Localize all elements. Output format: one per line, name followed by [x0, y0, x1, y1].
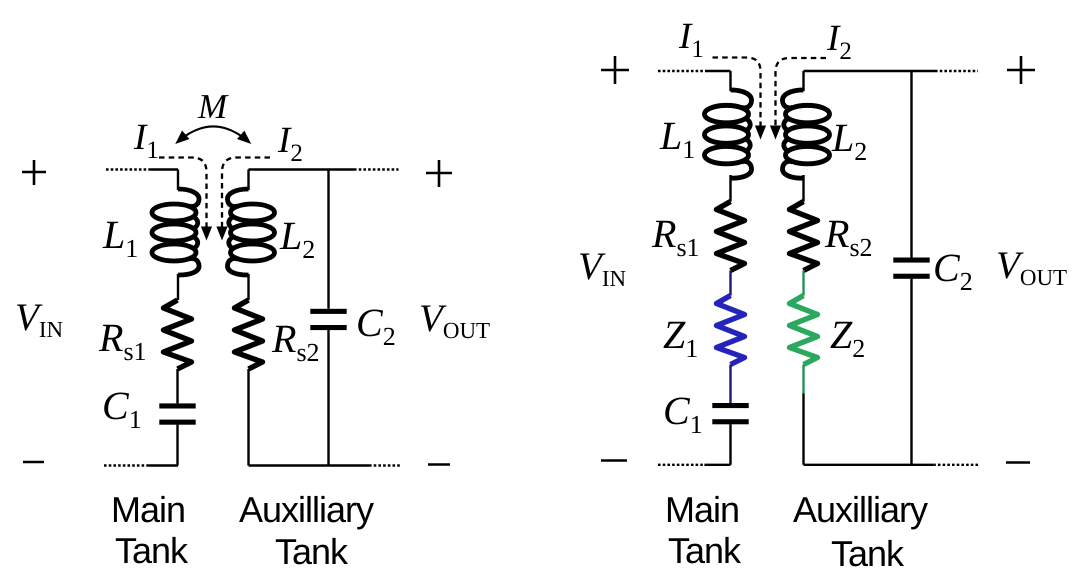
inductor L2: [782, 90, 829, 178]
svg-text:Main: Main: [111, 489, 185, 530]
wire main branch top: [177, 170, 179, 191]
svg-text:Tank: Tank: [668, 530, 742, 571]
wire C1 to bottom rail: [729, 424, 731, 465]
svg-text:I1: I1: [133, 117, 159, 164]
svg-text:VOUT: VOUT: [419, 297, 490, 343]
arrowhead M arc left end: [172, 131, 190, 149]
dashed current path I1: [159, 158, 207, 228]
resistor Rs2: [235, 300, 263, 369]
wire bottom rail dotted right: [369, 464, 400, 466]
wire L1 to Rs1: [177, 274, 179, 300]
wire bottom rail solid left: [704, 464, 730, 466]
impedance Z1: [717, 296, 745, 365]
plus terminal top-left: [601, 56, 629, 84]
svg-text:Auxilliary: Auxilliary: [793, 489, 928, 530]
svg-text:Rs1: Rs1: [651, 211, 700, 262]
wire Rs1 to C1: [176, 369, 178, 403]
dashed current path I2: [776, 58, 827, 126]
capacitor C1: [159, 403, 195, 424]
wire top rail dotted left: [106, 168, 149, 170]
wire Z2 green lead: [802, 365, 804, 394]
minus terminal bottom-left: [601, 459, 627, 462]
wire C2 branch top: [910, 71, 912, 258]
wire top rail solid right: [249, 168, 355, 170]
minus terminal bottom-left: [23, 461, 44, 464]
minus terminal bottom-right: [1006, 461, 1030, 464]
wire top rail dotted right: [354, 168, 399, 170]
wire L1 to Rs1: [729, 175, 731, 202]
wire C2 branch top: [327, 170, 329, 309]
wire Rs1 to Z1: [729, 271, 731, 296]
svg-text:L1: L1: [659, 113, 695, 164]
wire bottom rail dotted right: [933, 464, 979, 466]
svg-text:L2: L2: [831, 115, 867, 166]
resistor Rs1: [164, 300, 192, 369]
resistor Rs2: [790, 202, 818, 271]
arrowhead I2 right: [770, 126, 781, 140]
svg-text:Rs2: Rs2: [824, 211, 873, 262]
arrowhead I1 right: [755, 126, 766, 140]
wire C2 to bottom rail: [327, 330, 329, 466]
wire top rail dotted right: [935, 70, 978, 72]
wire bottom rail dotted left: [658, 464, 704, 466]
svg-text:Z2: Z2: [830, 312, 865, 363]
wire C2 to bottom rail: [910, 279, 912, 465]
mutual coupling arc M: [178, 126, 250, 142]
plus terminal top-right: [1007, 56, 1035, 84]
svg-text:L1: L1: [102, 212, 138, 263]
wire L2 to Rs2: [247, 274, 249, 300]
svg-text:Tank: Tank: [831, 533, 905, 574]
arrowhead I2 left: [216, 227, 227, 241]
wire L2 to Rs2: [802, 175, 804, 202]
arrowhead M arc right end: [237, 131, 255, 149]
wire top rail dotted left: [658, 70, 706, 72]
wire aux branch top: [247, 170, 249, 191]
wire bottom rail dotted left: [104, 464, 149, 466]
resistor Rs1: [717, 202, 745, 271]
svg-text:VIN: VIN: [578, 245, 626, 291]
capacitor C1: [712, 403, 748, 424]
wire Z2 to bottom rail: [802, 394, 804, 465]
minus terminal bottom-right: [428, 463, 450, 466]
svg-text:Tank: Tank: [115, 530, 189, 571]
arrowhead I1 left: [201, 227, 212, 241]
svg-text:L2: L2: [279, 213, 315, 264]
svg-text:I1: I1: [678, 16, 704, 63]
wire top rail solid left: [149, 168, 179, 170]
wire bottom rail solid left: [149, 464, 179, 466]
capacitor C2: [893, 258, 929, 279]
svg-text:C2: C2: [933, 245, 973, 296]
dashed current path I1: [713, 58, 761, 127]
wire top rail solid right: [804, 70, 936, 72]
svg-text:Z1: Z1: [663, 312, 698, 363]
svg-text:VOUT: VOUT: [996, 244, 1067, 290]
svg-text:C2: C2: [356, 300, 396, 351]
svg-text:Rs2: Rs2: [271, 316, 320, 367]
svg-text:Tank: Tank: [275, 531, 349, 572]
svg-text:Auxilliary: Auxilliary: [239, 489, 374, 530]
dashed current path I2: [222, 158, 270, 228]
svg-text:I2: I2: [826, 18, 852, 65]
svg-text:M: M: [197, 87, 229, 126]
svg-text:C1: C1: [102, 383, 142, 434]
wire Rs2 to bottom rail: [247, 369, 249, 466]
svg-text:VIN: VIN: [15, 296, 63, 342]
wire Rs2 to Z2: [802, 271, 804, 296]
inductor L2: [227, 189, 274, 275]
plus terminal top-left: [22, 160, 46, 185]
inductor L1: [705, 90, 752, 178]
inductor L1: [152, 189, 199, 275]
plus terminal top-right: [426, 160, 452, 187]
svg-text:Main: Main: [665, 489, 739, 530]
wire bottom rail solid right: [804, 464, 934, 466]
wire bottom rail solid right: [249, 464, 370, 466]
wire main branch top: [729, 71, 731, 91]
wire Z1 to C1: [729, 365, 731, 404]
svg-text:I2: I2: [277, 120, 303, 167]
svg-text:Rs1: Rs1: [98, 315, 147, 366]
wire top rail solid left: [706, 70, 731, 72]
impedance Z2: [790, 296, 818, 365]
wire aux branch top: [802, 71, 804, 91]
svg-text:C1: C1: [663, 388, 703, 439]
capacitor C2: [310, 309, 346, 330]
wire C1 to bottom rail: [176, 425, 178, 466]
